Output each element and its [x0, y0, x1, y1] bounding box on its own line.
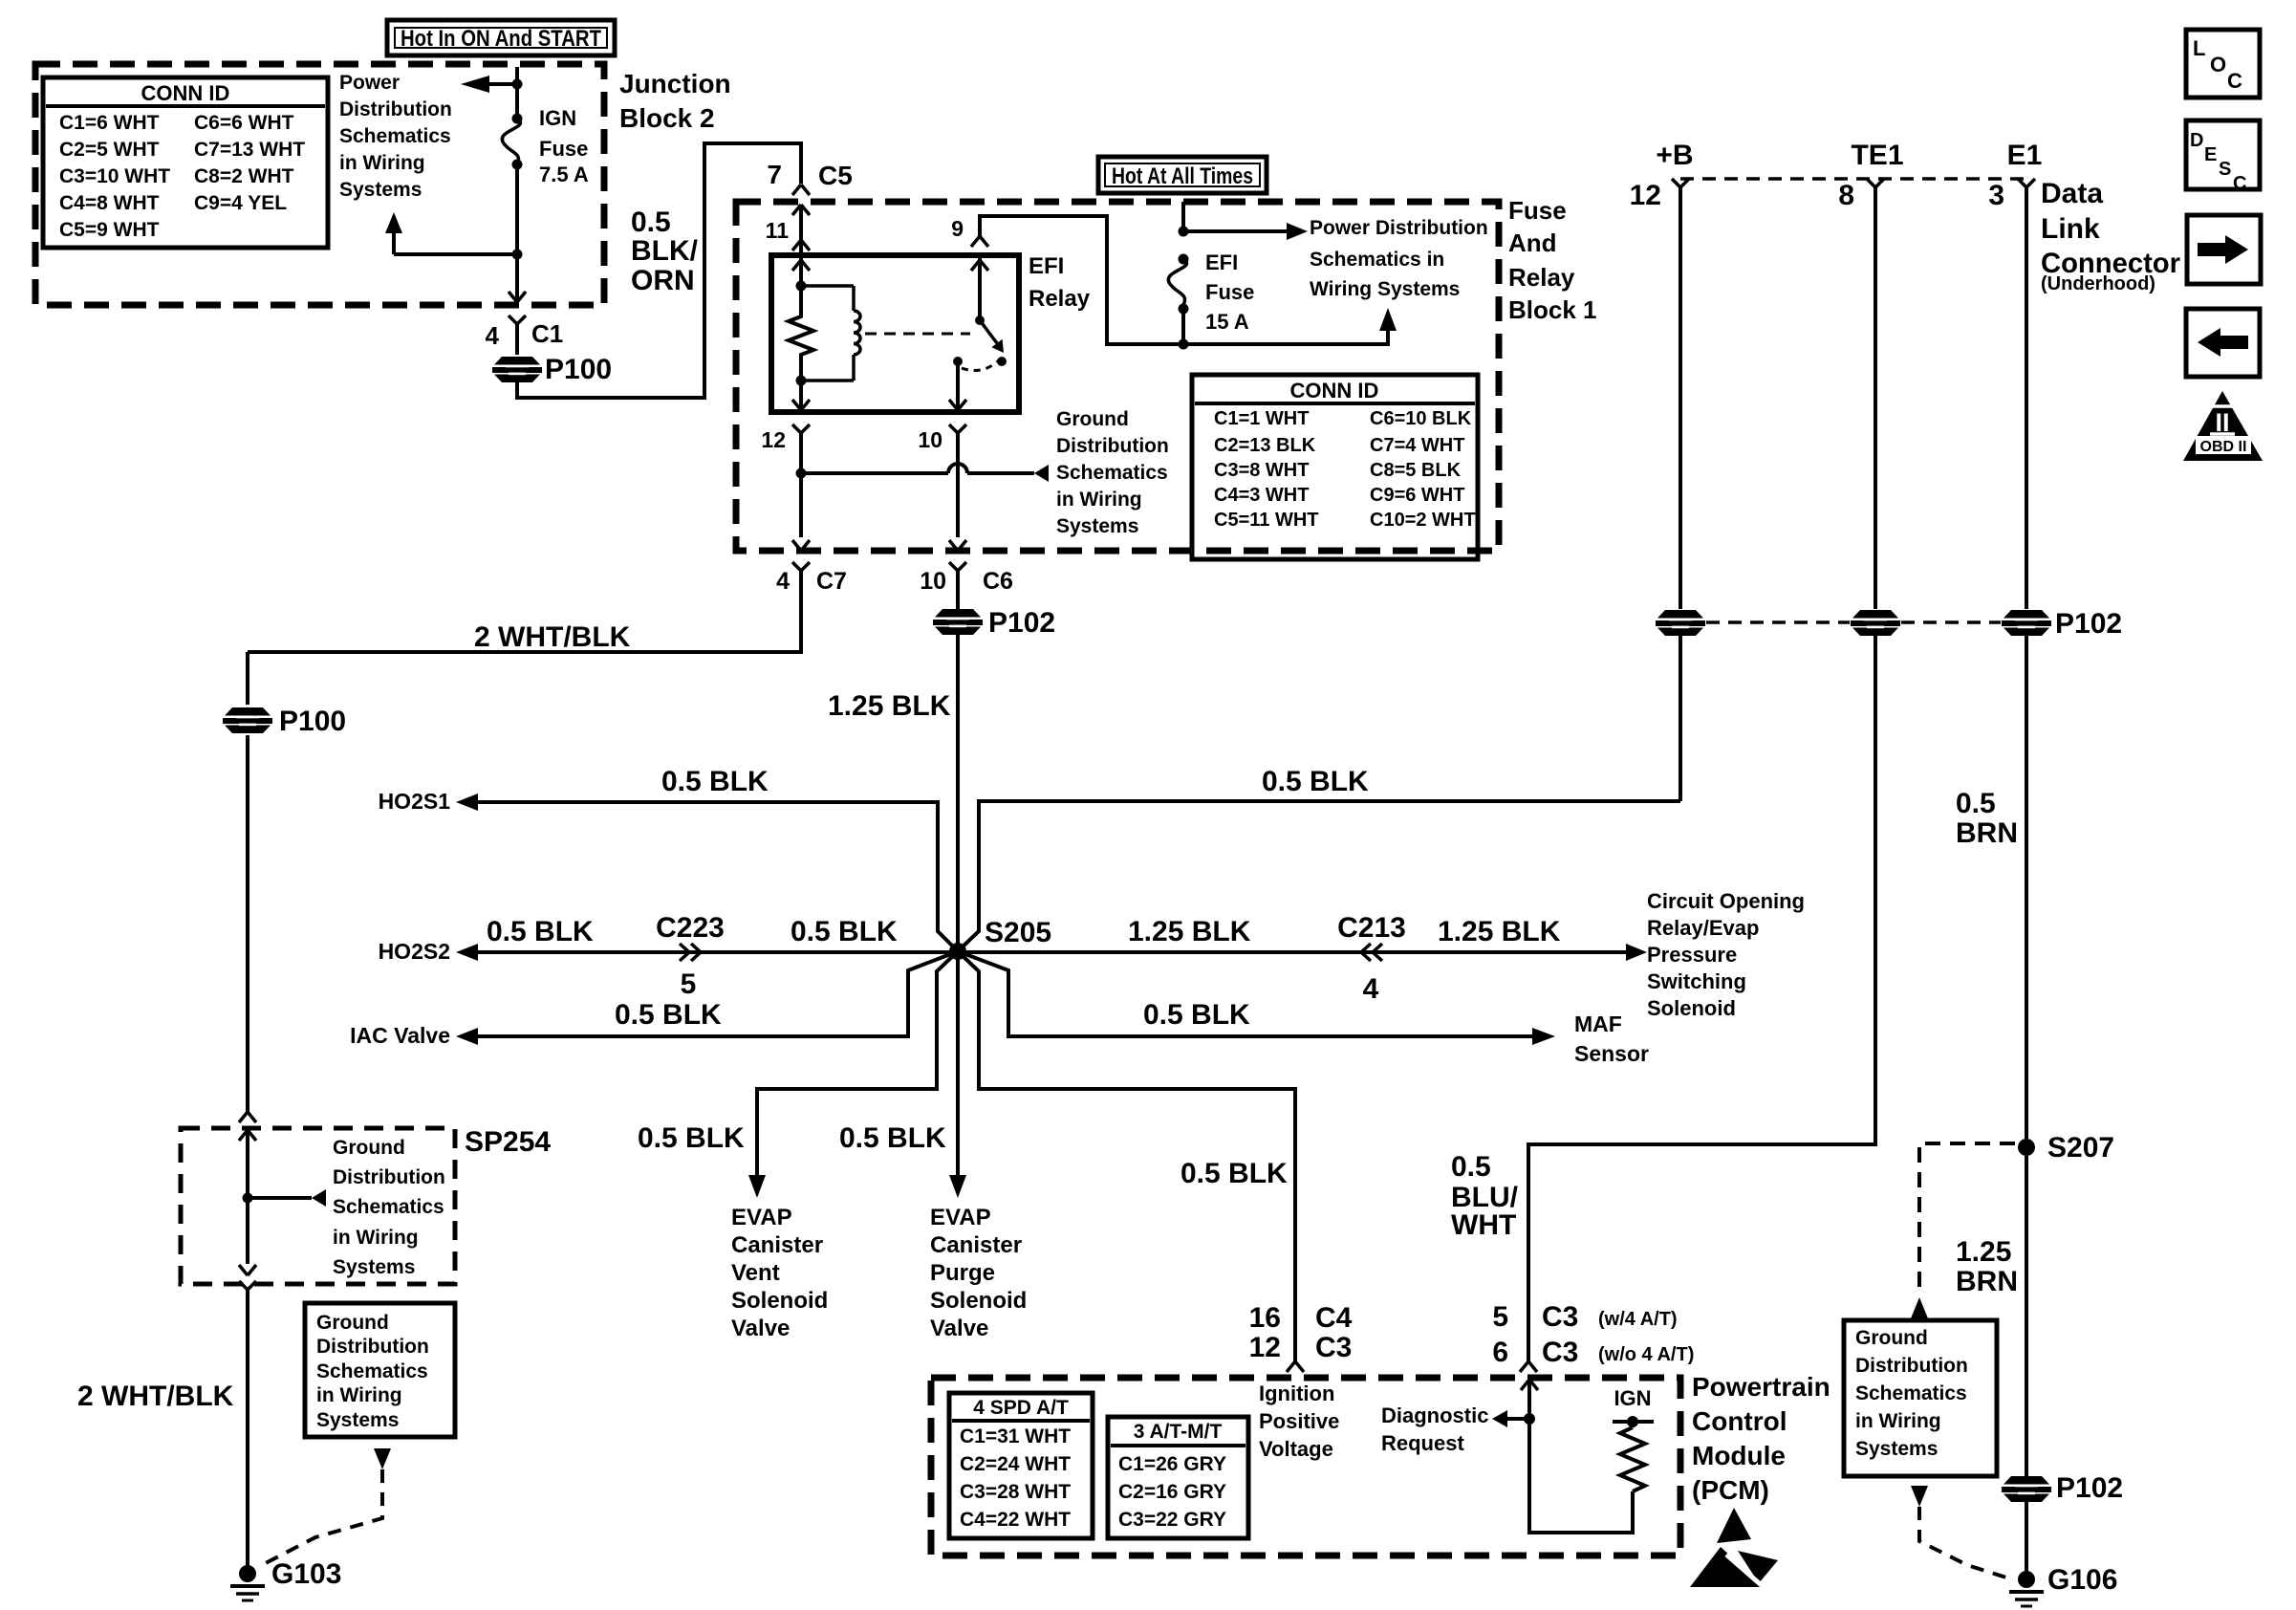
- wire coil to pin 12 inside relay: [792, 381, 810, 410]
- svg-text:0.5 BLK: 0.5 BLK: [1262, 766, 1369, 797]
- inline connector P102 (TE1): [1851, 610, 1900, 636]
- dashed branch S207 to ground distribution box: [1919, 1143, 2015, 1296]
- connector break 16 C4 / 12 C3 at PCM: [1249, 1302, 1353, 1372]
- arrow up into ground distribution note (S207 branch): [1911, 1297, 1928, 1318]
- svg-text:Block 2: Block 2: [619, 103, 715, 133]
- svg-text:Systems: Systems: [1056, 515, 1138, 537]
- wire below IGN fuse: [515, 164, 519, 302]
- svg-text:Fuse: Fuse: [1205, 280, 1254, 304]
- node IGN inside PCM: [1613, 1386, 1654, 1427]
- ground G103: [230, 1558, 341, 1600]
- inline connector P100 (left): [223, 706, 346, 737]
- note Power Distribution Schematics in Wiring Systems (J2): [339, 72, 452, 201]
- pin arrow into PCM (diagnostic request pin): [1521, 1380, 1633, 1533]
- note Ground Distribution Schematics in Wiring Systems (SP254): [333, 1137, 445, 1278]
- svg-text:Fuse: Fuse: [539, 137, 588, 161]
- svg-text:O: O: [2210, 53, 2226, 76]
- svg-text:0.5 BLK: 0.5 BLK: [791, 916, 898, 947]
- svg-text:in Wiring: in Wiring: [333, 1227, 419, 1249]
- svg-text:5: 5: [681, 968, 697, 1000]
- svg-text:Control: Control: [1692, 1406, 1787, 1436]
- svg-text:C8=5 BLK: C8=5 BLK: [1370, 460, 1462, 481]
- svg-text:L: L: [2193, 36, 2205, 60]
- svg-text:IAC Valve: IAC Valve: [350, 1023, 450, 1048]
- splice S207: [2018, 1132, 2114, 1164]
- svg-text:5: 5: [1492, 1301, 1508, 1333]
- relay actuation dashed link: [865, 333, 970, 336]
- svg-text:Solenoid: Solenoid: [731, 1288, 828, 1314]
- relay coil branch node bottom: [796, 376, 807, 386]
- arrow to HO2S1: [379, 789, 478, 814]
- svg-text:C4=8 WHT: C4=8 WHT: [59, 192, 160, 214]
- wire E1 down to P102: [2025, 187, 2028, 609]
- svg-text:8: 8: [1838, 180, 1854, 211]
- svg-text:4 SPD A/T: 4 SPD A/T: [973, 1397, 1069, 1419]
- svg-text:IGN: IGN: [539, 106, 576, 130]
- svg-text:SP254: SP254: [465, 1126, 551, 1158]
- svg-text:Powertrain: Powertrain: [1692, 1372, 1830, 1402]
- label 1.25 BLK (C213 right): [1438, 916, 1561, 947]
- svg-text:ORN: ORN: [631, 265, 695, 296]
- svg-text:1.25: 1.25: [1956, 1236, 2011, 1268]
- svg-text:S: S: [2219, 159, 2231, 180]
- relay switch arm: [975, 315, 1004, 353]
- wire pin 9 to EFI fuse rail: [980, 216, 1388, 344]
- svg-text:(Underhood): (Underhood): [2041, 273, 2155, 294]
- svg-text:Systems: Systems: [339, 179, 422, 201]
- svg-text:Relay: Relay: [1508, 263, 1575, 292]
- connector ID table CONN ID (Fuse/Relay Block 1): [1192, 375, 1478, 559]
- note box Ground Distribution Schematics in Wiring Systems (left): [305, 1303, 455, 1437]
- svg-text:0.5: 0.5: [631, 207, 671, 238]
- connector ID table CONN ID (Junction Block 2): [43, 77, 328, 248]
- off-page arrow to Ground Distribution (pin 12) with hop: [801, 464, 1049, 482]
- node dot diagnostic request: [1524, 1413, 1535, 1425]
- arrow to Circuit Opening Relay: [1626, 944, 1647, 961]
- svg-text:P102: P102: [2055, 608, 2122, 640]
- svg-text:11: 11: [766, 218, 790, 243]
- svg-text:10: 10: [920, 568, 946, 595]
- svg-text:6: 6: [1492, 1337, 1508, 1368]
- inline connector P102 (center): [933, 607, 1055, 639]
- svg-text:12: 12: [761, 427, 786, 452]
- relay switch common from pin 9: [951, 216, 988, 320]
- label Diagnostic Request: [1381, 1403, 1488, 1455]
- label 0.5 BLK (purge): [839, 1122, 946, 1154]
- svg-text:Hot At All Times: Hot At All Times: [1112, 163, 1253, 189]
- connector C213 pin 4: [1337, 912, 1406, 1005]
- svg-text:P100: P100: [279, 706, 346, 737]
- svg-text:Request: Request: [1381, 1431, 1464, 1455]
- svg-text:Relay: Relay: [1029, 286, 1091, 312]
- wire 0.5 BLK to IAC Valve: [478, 951, 958, 1036]
- connector break entering SP254: [239, 1112, 256, 1122]
- junction block J2 dashed outline (Junction Block 2): [35, 64, 604, 305]
- svg-text:C7: C7: [816, 568, 847, 595]
- svg-text:Fuse: Fuse: [1508, 196, 1567, 225]
- wire +B down to P102: [1679, 187, 1682, 609]
- svg-text:C9=6 WHT: C9=6 WHT: [1370, 485, 1464, 506]
- arrow to EVAP canister purge solenoid valve: [949, 1175, 966, 1198]
- fuse IGN Fuse 7.5 A: [502, 106, 589, 186]
- svg-text:15 A: 15 A: [1205, 310, 1249, 334]
- svg-text:(w/4 A/T): (w/4 A/T): [1598, 1309, 1678, 1330]
- legend icon LOC: [2186, 30, 2260, 98]
- svg-text:C2=5 WHT: C2=5 WHT: [59, 139, 160, 161]
- svg-text:Distribution: Distribution: [1855, 1355, 1968, 1377]
- svg-text:in Wiring: in Wiring: [1056, 489, 1142, 511]
- wire 0.5 BLK to MAF Sensor: [958, 951, 1532, 1036]
- wire 1.25 BLK to circuit opening relay via C213: [958, 950, 1626, 954]
- relay EFI Relay box: [771, 253, 1091, 412]
- svg-text:C5=9 WHT: C5=9 WHT: [59, 219, 160, 241]
- arrow to MAF Sensor: [1532, 1028, 1555, 1045]
- svg-text:Schematics: Schematics: [339, 125, 451, 147]
- svg-text:And: And: [1508, 228, 1557, 257]
- svg-text:Power Distribution: Power Distribution: [1310, 217, 1488, 239]
- svg-text:1.25 BLK: 1.25 BLK: [1128, 916, 1251, 947]
- wire 1.25 BLK from P102 to S205 and EVAP purge: [956, 634, 960, 1175]
- svg-text:Link: Link: [2041, 213, 2100, 245]
- svg-text:0.5 BLK: 0.5 BLK: [839, 1122, 946, 1154]
- svg-text:II: II: [2215, 408, 2229, 437]
- note Power Distribution Schematics in Wiring Systems (block1): [1310, 217, 1488, 300]
- legend icon DESC: [2186, 120, 2260, 194]
- wire E1 to G106: [2025, 1501, 2028, 1577]
- label 0.5 BLK (to PCM): [1180, 1158, 1288, 1189]
- svg-text:+B: +B: [1656, 140, 1693, 171]
- legend icon arrow left: [2186, 309, 2260, 377]
- svg-text:2 WHT/BLK: 2 WHT/BLK: [474, 621, 631, 653]
- svg-text:Canister: Canister: [930, 1232, 1022, 1258]
- pin 12 exit below relay: [761, 424, 810, 551]
- label 0.5 BLK (IAC): [615, 999, 722, 1031]
- connector break TE1 pin 8 (Data Link Connector): [1838, 140, 1903, 211]
- svg-text:4: 4: [486, 321, 500, 350]
- label 0.5 BLK (HO2S1): [661, 766, 769, 797]
- svg-text:Voltage: Voltage: [1259, 1437, 1333, 1461]
- load Circuit Opening Relay/Evap Pressure Switching Solenoid: [1647, 889, 1805, 1020]
- wire 0.5 BLK to EVAP vent solenoid: [757, 951, 958, 1175]
- pin 11 entry into EFI relay: [766, 205, 810, 255]
- svg-text:Schematics in: Schematics in: [1310, 249, 1444, 271]
- pin arrow out of Junction Block 2 bottom: [509, 292, 526, 302]
- svg-text:C5=11 WHT: C5=11 WHT: [1214, 510, 1318, 531]
- pin arrow into SP254: [239, 1130, 256, 1264]
- off-page arrow to Ground Distribution (SP254): [248, 1189, 326, 1207]
- wire P100 down to SP254: [246, 735, 249, 1112]
- svg-text:10: 10: [918, 427, 942, 452]
- pin 10 exit below relay: [918, 424, 966, 551]
- header box Hot At All Times: [1098, 157, 1267, 193]
- svg-text:3: 3: [1988, 180, 2004, 211]
- wire TE1 below P102 to PCM pin 5/6 C3: [1528, 634, 1875, 1361]
- label 1.25 BLK (vertical feed): [828, 690, 951, 722]
- connector break 10 C6: [920, 562, 1013, 595]
- label Powertrain Control Module (PCM): [1692, 1372, 1830, 1505]
- relay coil winding: [801, 286, 860, 381]
- svg-text:C1=26 GRY: C1=26 GRY: [1118, 1453, 1226, 1475]
- svg-text:HO2S1: HO2S1: [379, 789, 451, 814]
- label Junction Block 2: [619, 69, 731, 133]
- svg-text:C4: C4: [1315, 1302, 1353, 1334]
- svg-text:Vent: Vent: [731, 1260, 780, 1286]
- node junction dot below IGN fuse: [512, 250, 523, 260]
- svg-text:C3: C3: [1315, 1332, 1352, 1363]
- svg-text:C10=2 WHT: C10=2 WHT: [1370, 510, 1476, 531]
- node dot on pin 12 wire: [796, 468, 807, 479]
- connector break E1 pin 3 (Data Link Connector): [1988, 140, 2042, 211]
- label 0.5 BRN: [1956, 788, 2018, 849]
- arrow down from ground distribution note (right): [1911, 1486, 1928, 1507]
- connector break below SP254: [239, 1281, 256, 1574]
- wire E1 below P102 down to S207: [2025, 634, 2028, 1476]
- svg-text:4: 4: [1363, 973, 1379, 1005]
- svg-text:TE1: TE1: [1851, 140, 1903, 171]
- svg-text:16: 16: [1249, 1302, 1281, 1334]
- svg-text:C213: C213: [1337, 912, 1406, 944]
- wire IGN feed from Hot In ON And START: [515, 67, 519, 119]
- svg-text:EVAP: EVAP: [731, 1205, 792, 1230]
- wire Hot At All Times to EFI fuse: [1181, 202, 1185, 231]
- svg-text:C8=2 WHT: C8=2 WHT: [194, 165, 294, 187]
- svg-text:Relay/Evap: Relay/Evap: [1647, 916, 1759, 940]
- svg-text:0.5 BLK: 0.5 BLK: [487, 916, 594, 947]
- wire EFI fuse to switch rail: [1179, 309, 1189, 350]
- svg-text:MAF: MAF: [1574, 1012, 1622, 1036]
- svg-text:1.25 BLK: 1.25 BLK: [1438, 916, 1561, 947]
- arrow down from ground distribution note (left): [374, 1448, 391, 1469]
- svg-text:EFI: EFI: [1205, 250, 1238, 274]
- svg-text:3 A/T-M/T: 3 A/T-M/T: [1134, 1421, 1223, 1443]
- resistor pull-up inside PCM: [1620, 1422, 1645, 1491]
- svg-text:C7=4 WHT: C7=4 WHT: [1370, 435, 1464, 456]
- svg-text:0.5 BLK: 0.5 BLK: [1180, 1158, 1288, 1189]
- pin arrow out of SP254 bottom: [239, 1265, 256, 1275]
- svg-text:Canister: Canister: [731, 1232, 823, 1258]
- svg-text:C6=10 BLK: C6=10 BLK: [1370, 408, 1472, 429]
- svg-text:EVAP: EVAP: [930, 1205, 991, 1230]
- inline connector P102 (+B): [1656, 610, 1705, 636]
- svg-text:Valve: Valve: [731, 1316, 790, 1341]
- wire C6 to P102: [956, 571, 960, 609]
- svg-text:Solenoid: Solenoid: [1647, 996, 1736, 1020]
- svg-text:Junction: Junction: [619, 69, 731, 98]
- svg-text:Circuit Opening: Circuit Opening: [1647, 889, 1805, 913]
- svg-text:Systems: Systems: [333, 1256, 415, 1278]
- ESD sensitivity symbol at PCM: [1690, 1508, 1778, 1588]
- svg-text:Distribution: Distribution: [333, 1166, 445, 1188]
- table 3 A/T-M/T connector IDs: [1108, 1417, 1248, 1538]
- wire 0.5 BLK to HO2S1 (up-left branch): [478, 802, 958, 951]
- inline connector P100 (top): [492, 354, 612, 385]
- dashed connector tie at Data Link Connector: [1680, 177, 2026, 181]
- svg-text:Ignition: Ignition: [1259, 1382, 1334, 1405]
- connector break +B pin 12 (Data Link Connector): [1630, 140, 1694, 211]
- svg-text:Systems: Systems: [316, 1409, 399, 1431]
- label 2 WHT/BLK (top): [474, 621, 631, 653]
- svg-text:C2=13 BLK: C2=13 BLK: [1214, 435, 1316, 456]
- svg-text:7.5 A: 7.5 A: [539, 163, 589, 186]
- svg-text:C223: C223: [656, 912, 725, 944]
- label 1.25 BRN: [1956, 1236, 2018, 1297]
- svg-text:C3: C3: [1542, 1301, 1578, 1333]
- svg-text:C2=16 GRY: C2=16 GRY: [1118, 1481, 1226, 1503]
- svg-text:Ground: Ground: [1855, 1327, 1928, 1349]
- svg-text:WHT: WHT: [1451, 1209, 1516, 1241]
- svg-text:S205: S205: [985, 917, 1051, 948]
- svg-text:Pressure: Pressure: [1647, 943, 1737, 967]
- svg-text:C6: C6: [983, 568, 1013, 595]
- svg-text:C1: C1: [531, 319, 563, 348]
- dashed branch to G103: [260, 1469, 382, 1566]
- connector break 4 C7: [776, 562, 847, 595]
- wire TE1 down to P102: [1874, 187, 1877, 609]
- svg-text:P100: P100: [545, 354, 612, 385]
- svg-text:C9=4 YEL: C9=4 YEL: [194, 192, 287, 214]
- label Fuse And Relay Block 1: [1508, 196, 1597, 324]
- svg-text:S207: S207: [2047, 1132, 2114, 1164]
- label 1.25 BLK (C213 left): [1128, 916, 1251, 947]
- label 0.5 BLK (vent): [638, 1122, 745, 1154]
- wire +B below P102 to 0.5 BLK corner: [1679, 634, 1682, 801]
- load EVAP Canister Purge Solenoid Valve: [930, 1205, 1027, 1341]
- svg-text:C1=6 WHT: C1=6 WHT: [59, 112, 160, 134]
- note Ground Distribution Schematics in Wiring Systems (block1): [1056, 408, 1169, 537]
- svg-text:Distribution: Distribution: [1056, 435, 1169, 457]
- svg-text:9: 9: [951, 216, 964, 241]
- arrow up to Wiring Systems note (fuse rail): [1379, 308, 1397, 331]
- resistor inside EFI relay: [789, 286, 813, 381]
- svg-text:Schematics: Schematics: [333, 1196, 444, 1218]
- svg-text:IGN: IGN: [1614, 1386, 1651, 1410]
- svg-text:CONN ID: CONN ID: [141, 81, 230, 105]
- svg-text:7: 7: [767, 160, 782, 189]
- splice S205: [949, 917, 1051, 960]
- svg-text:C6=6 WHT: C6=6 WHT: [194, 112, 294, 134]
- pin arrow inside relay (pin 11): [792, 255, 810, 286]
- svg-text:BRN: BRN: [1956, 817, 2018, 849]
- svg-text:in Wiring: in Wiring: [316, 1384, 402, 1406]
- connector break 7 C5 at Fuse/Relay Block 1: [767, 160, 852, 195]
- svg-text:G103: G103: [271, 1558, 341, 1590]
- load MAF Sensor: [1574, 1012, 1649, 1066]
- dashed branch to G106: [1919, 1507, 2009, 1578]
- inline connector P102 (E1 lower): [2002, 1472, 2123, 1504]
- wire from P100 to EFI relay pin 7/C5: [517, 143, 801, 398]
- svg-text:Power: Power: [339, 72, 400, 94]
- off-page arrow to Power Distribution Schematics (J2): [461, 76, 517, 93]
- wire 0.5 BLK to PCM ignition positive voltage pin: [958, 951, 1295, 1361]
- svg-text:1.25 BLK: 1.25 BLK: [828, 690, 951, 722]
- label 0.5 BLK (MAF): [1143, 999, 1250, 1031]
- arrow Diagnostic Request: [1492, 1410, 1529, 1427]
- svg-text:E: E: [2204, 144, 2217, 165]
- svg-text:Ground: Ground: [1056, 408, 1129, 430]
- svg-text:Solenoid: Solenoid: [930, 1288, 1027, 1314]
- svg-text:BRN: BRN: [1956, 1266, 2018, 1297]
- svg-text:E1: E1: [2007, 140, 2043, 171]
- svg-text:P102: P102: [2056, 1472, 2123, 1504]
- connector break 5 C3 w/4 A/T and 6 C3 w/o 4 A/T: [1492, 1301, 1694, 1372]
- svg-text:C4=3 WHT: C4=3 WHT: [1214, 485, 1309, 506]
- svg-text:Schematics: Schematics: [1855, 1382, 1967, 1404]
- svg-text:C5: C5: [818, 161, 853, 190]
- svg-text:C: C: [2233, 173, 2246, 194]
- svg-text:Systems: Systems: [1855, 1438, 1938, 1460]
- fuse EFI Fuse 15 A: [1168, 250, 1254, 334]
- svg-text:C3=8 WHT: C3=8 WHT: [1214, 460, 1309, 481]
- label 0.5 BLK/ORN: [631, 207, 699, 296]
- arrow to IAC Valve: [350, 1023, 478, 1048]
- wire left run down to P100: [246, 652, 249, 705]
- junction block J2 header box 'Hot In ON And START': [387, 20, 615, 55]
- svg-text:CONN ID: CONN ID: [1290, 379, 1379, 402]
- label Ignition Positive Voltage: [1259, 1382, 1339, 1461]
- svg-text:Schematics: Schematics: [316, 1360, 428, 1382]
- note box Ground Distribution Schematics in Wiring Systems (right): [1844, 1320, 1997, 1476]
- svg-text:(w/o 4 A/T): (w/o 4 A/T): [1598, 1344, 1694, 1365]
- svg-text:(PCM): (PCM): [1692, 1475, 1769, 1505]
- table 4 SPD A/T connector IDs: [949, 1393, 1093, 1538]
- node junction dot at IGN feed: [512, 79, 523, 90]
- svg-text:C3=22 GRY: C3=22 GRY: [1118, 1509, 1226, 1531]
- connector C223 pin 5: [656, 912, 725, 1000]
- label Data Link Connector (Underhood): [2041, 178, 2180, 294]
- svg-text:P102: P102: [988, 607, 1055, 639]
- legend icon arrow right: [2187, 215, 2261, 284]
- svg-text:12: 12: [1630, 180, 1661, 211]
- svg-text:C1=1 WHT: C1=1 WHT: [1214, 408, 1309, 429]
- svg-text:Diagnostic: Diagnostic: [1381, 1403, 1488, 1427]
- svg-text:Ground: Ground: [333, 1137, 405, 1159]
- svg-text:4: 4: [776, 568, 790, 595]
- legend icon OBD II triangle: [2183, 391, 2263, 461]
- svg-text:0.5 BLK: 0.5 BLK: [638, 1122, 745, 1154]
- svg-text:0.5: 0.5: [1956, 788, 1996, 819]
- svg-text:in Wiring: in Wiring: [1855, 1410, 1941, 1432]
- svg-text:OBD II: OBD II: [2200, 439, 2247, 455]
- arrow to EVAP canister vent solenoid valve: [748, 1175, 766, 1198]
- label 0.5 BLU/WHT: [1451, 1151, 1519, 1241]
- off-page arrow to Power Distribution Schematics (block1): [1183, 223, 1308, 240]
- relay coil branch node top: [796, 281, 807, 292]
- wire switch to pin 10 inside relay: [949, 361, 966, 410]
- svg-text:HO2S2: HO2S2: [379, 939, 450, 964]
- label 0.5 BLK (HO2S2 left): [487, 916, 594, 947]
- relay switch contacts: [953, 357, 1007, 371]
- svg-text:D: D: [2190, 130, 2203, 151]
- svg-text:EFI: EFI: [1029, 253, 1064, 279]
- load EVAP Canister Vent Solenoid Valve: [731, 1205, 828, 1341]
- svg-text:C3: C3: [1542, 1337, 1578, 1368]
- module Powertrain Control Module (PCM) dashed outline: [931, 1378, 1680, 1556]
- label 0.5 BLK (HO2S2 right): [791, 916, 898, 947]
- svg-text:Module: Module: [1692, 1441, 1786, 1470]
- svg-text:C2=24 WHT: C2=24 WHT: [960, 1453, 1071, 1475]
- svg-text:in Wiring: in Wiring: [339, 152, 425, 174]
- svg-text:G106: G106: [2047, 1564, 2117, 1596]
- svg-text:Ground: Ground: [316, 1312, 389, 1334]
- splice pack SP254 dashed outline: [181, 1126, 551, 1284]
- svg-text:C3=10 WHT: C3=10 WHT: [59, 165, 170, 187]
- svg-text:C4=22 WHT: C4=22 WHT: [960, 1509, 1071, 1531]
- svg-text:Schematics: Schematics: [1056, 462, 1168, 484]
- svg-text:Data: Data: [2041, 178, 2103, 209]
- connector break 4 C1 below J2: [486, 315, 564, 355]
- arrow to HO2S2: [379, 939, 478, 964]
- svg-text:Block 1: Block 1: [1508, 295, 1597, 324]
